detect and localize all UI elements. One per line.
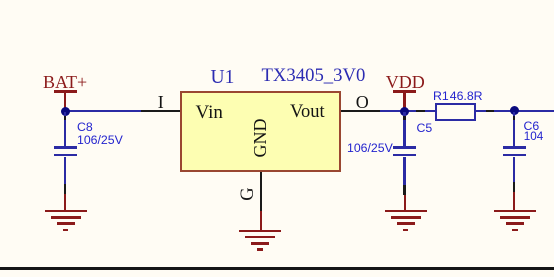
wire net BATI horizontal — [64, 110, 142, 112]
capacitor C6 — [0, 0, 1, 1]
ground (below C6) — [0, 0, 1, 1]
value 106/25V (C5) — [347, 142, 393, 154]
label C8 — [77, 121, 93, 133]
label C5 — [417, 122, 433, 134]
power port BAT+ — [0, 0, 1, 1]
value 106/25V (C8) — [77, 134, 123, 146]
value TX3405_3V0 — [262, 67, 366, 86]
ground (below G pin) — [0, 0, 1, 1]
pin name Vout — [290, 103, 325, 122]
pin lead Vin (pin I) — [141, 110, 181, 112]
junction node at BAT+/C8 — [61, 107, 70, 116]
wire net VDD horizontal — [380, 110, 554, 112]
resistor R1 — [0, 0, 1, 1]
label R1 46.8R — [433, 90, 483, 102]
capacitor C8 — [0, 0, 1, 1]
pin label I — [158, 93, 164, 111]
capacitor C5 — [0, 0, 1, 1]
label C6 — [524, 120, 540, 132]
value 104 (C6) — [524, 131, 544, 143]
pin name Vin — [196, 103, 223, 122]
pin label O — [356, 93, 369, 111]
power port VDD — [0, 0, 1, 1]
pin lead Vout (pin O) — [341, 110, 380, 112]
ground (below C5) — [0, 0, 1, 1]
pin name GND (rotated) — [259, 137, 261, 139]
sheet border bottom line — [0, 267, 554, 270]
pin label G (rotated) — [247, 193, 249, 195]
designator U1 — [211, 68, 235, 88]
ground (below C8) — [0, 0, 1, 1]
junction node at VDD/C5 — [400, 107, 409, 116]
junction node at C6 — [510, 106, 519, 115]
pin lead GND (pin G) — [260, 172, 262, 212]
regulator U1 body — [180, 91, 341, 173]
